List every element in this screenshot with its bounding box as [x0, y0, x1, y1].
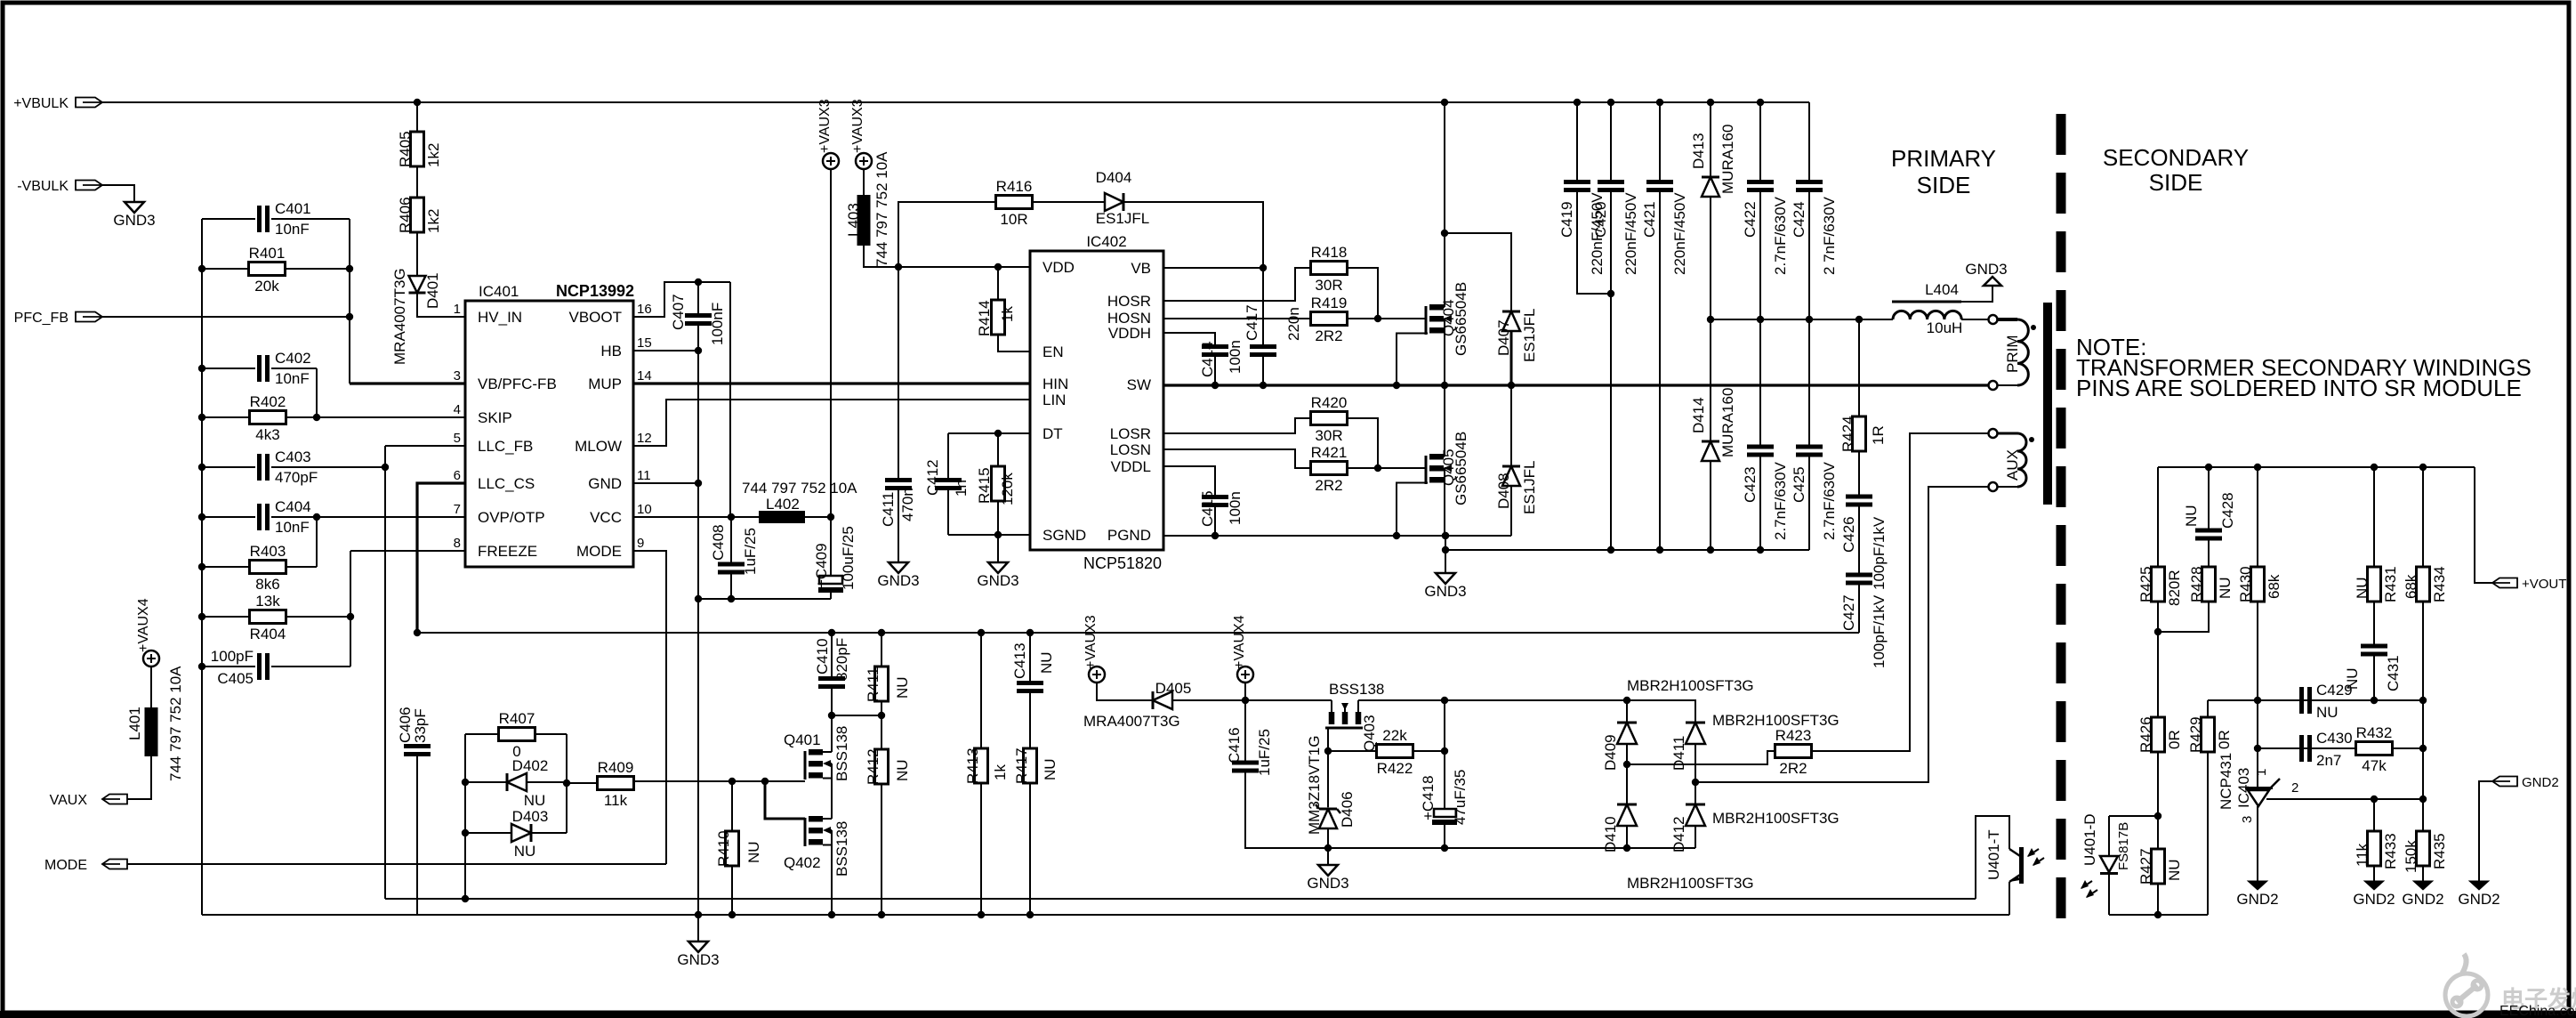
wire pin4 SKIP [317, 416, 465, 418]
svg-text:C422: C422 [1742, 201, 1759, 238]
optocoupler transistor U401-T [1976, 816, 2009, 899]
wire Q402 gate [765, 781, 805, 819]
svg-text:D411: D411 [1670, 736, 1687, 771]
svg-text:SKIP: SKIP [478, 409, 512, 426]
wire GND3 to C409 bottom [698, 598, 831, 600]
svg-text:D407: D407 [1495, 319, 1512, 356]
svg-text:GND3: GND3 [977, 572, 1018, 589]
svg-text:MRA4007T3G: MRA4007T3G [1083, 713, 1180, 730]
wire LLC_CS bus [417, 632, 1859, 634]
diode D403 NU [465, 832, 511, 834]
wire pin16 VBOOT [633, 282, 730, 317]
svg-text:C425: C425 [1791, 466, 1807, 503]
wire resonant node [1711, 319, 1893, 320]
svg-text:LLC_FB: LLC_FB [478, 438, 533, 455]
resistor R407 0 [465, 733, 499, 735]
svg-text:VDD: VDD [1042, 259, 1075, 276]
svg-text:MBR2H100SFT3G: MBR2H100SFT3G [1712, 810, 1839, 827]
svg-text:C423: C423 [1742, 466, 1759, 503]
svg-text:MUP: MUP [588, 376, 622, 392]
svg-text:L404: L404 [1925, 281, 1959, 298]
svg-text:C415: C415 [1199, 490, 1216, 527]
wire pin15 HB [633, 350, 698, 351]
svg-text:+VOUT: +VOUT [2522, 577, 2566, 592]
wire SGND [948, 534, 1030, 536]
svg-text:100pF: 100pF [211, 648, 254, 665]
diode D408 ES1JFL [1510, 385, 1512, 466]
svg-text:NCP13992: NCP13992 [556, 282, 634, 300]
wire L401 to +VAUX4 [150, 667, 152, 707]
svg-text:D410: D410 [1602, 816, 1619, 852]
svg-text:U401-T: U401-T [1985, 829, 2002, 880]
svg-text:+VAUX4: +VAUX4 [136, 598, 151, 652]
svg-text:11: 11 [637, 468, 651, 483]
wire IC403 cathode [2257, 700, 2258, 787]
wire pin12 MLOW to LIN [633, 400, 1030, 446]
capacitor C430 2n7 [2299, 735, 2304, 762]
svg-text:BSS138: BSS138 [833, 726, 850, 781]
wire pin8 FREEZE [350, 550, 465, 552]
ground GND3 under C411 [889, 562, 908, 573]
svg-text:470n: 470n [899, 488, 916, 521]
capacitor C428 NU [2208, 467, 2210, 529]
svg-text:MODE: MODE [576, 543, 622, 560]
svg-text:GS66504B: GS66504B [1453, 282, 1469, 356]
resistor R403 [202, 566, 250, 568]
svg-text:820R: 820R [2166, 570, 2183, 606]
diode D411 MBR2H100SFT3G [1627, 700, 1695, 723]
svg-text:R426: R426 [2137, 716, 2154, 753]
wire resonant return line [1445, 549, 1809, 551]
optocoupler diode U401-D FS817B [2108, 816, 2110, 856]
svg-text:1: 1 [2254, 769, 2269, 776]
svg-text:22k: 22k [1382, 727, 1407, 744]
svg-text:R429: R429 [2187, 716, 2204, 753]
svg-text:+VAUX3: +VAUX3 [850, 99, 865, 153]
wire D401 to pin1 HV_IN [417, 293, 465, 317]
inductor L403 [863, 169, 865, 195]
capacitor C415 [1163, 466, 1215, 496]
resistor R409 11k [598, 777, 634, 790]
svg-text:16: 16 [637, 302, 652, 317]
resistor R418 [1163, 268, 1312, 301]
capacitor C407 [697, 282, 699, 313]
op-amp IC401 NCP13992 box [465, 301, 633, 567]
wire R418 to gate node [1346, 268, 1378, 319]
wire FREEZE vertical to C405 [350, 551, 351, 667]
wire VAUX return line [1328, 847, 1695, 849]
svg-text:NU: NU [1038, 651, 1055, 674]
svg-text:C414: C414 [1199, 341, 1216, 377]
wire LLC_FB feedback vertical [384, 446, 386, 899]
svg-text:R403: R403 [250, 543, 286, 560]
svg-text:VCC: VCC [590, 509, 622, 526]
svg-text:2.7nF/630V: 2.7nF/630V [1772, 196, 1789, 275]
capacitor C422 2.7nF/630V [1759, 102, 1761, 181]
svg-text:10R: 10R [1000, 211, 1027, 228]
capacitor C412 [947, 433, 949, 478]
wire Q405 source to PGND [1444, 483, 1445, 537]
wire R428 bottom to R425 [2158, 602, 2209, 632]
connector -VBULK [76, 181, 102, 190]
svg-text:GND2: GND2 [2353, 891, 2395, 908]
capacitor C411 [898, 267, 899, 478]
svg-text:AUX: AUX [2004, 449, 2021, 481]
wire Q401 drain [831, 715, 833, 752]
svg-text:R432: R432 [2356, 724, 2393, 741]
wire R419 to Q404 gate [1346, 318, 1378, 319]
svg-text:15: 15 [637, 335, 652, 351]
svg-text:+VBULK: +VBULK [13, 96, 68, 111]
svg-text:IC401: IC401 [479, 283, 519, 300]
capacitor C404 [202, 516, 255, 518]
svg-text:BSS138: BSS138 [833, 821, 850, 877]
wire SW node [1163, 384, 1989, 386]
capacitor C419 220nF/450V [1576, 102, 1578, 181]
capacitor C401 [202, 218, 255, 220]
capacitor C414 [1163, 333, 1215, 344]
svg-text:GND3: GND3 [877, 572, 919, 589]
svg-text:820pF: 820pF [833, 638, 850, 681]
wire pin11 GND [633, 482, 698, 484]
svg-text:R430: R430 [2237, 566, 2254, 602]
inductor L401 [145, 707, 158, 756]
svg-text:C424: C424 [1791, 201, 1807, 238]
svg-text:SIDE: SIDE [1917, 172, 1971, 198]
svg-text:1uF/25: 1uF/25 [1256, 729, 1273, 776]
svg-text:D402: D402 [512, 757, 549, 774]
wire pin10 VCC [633, 516, 759, 518]
svg-text:0R: 0R [2216, 730, 2233, 749]
wire D-loop right vertical [566, 734, 568, 833]
wire L404 shield to GND3 [1961, 286, 1992, 302]
wire L402 to C409 [805, 516, 831, 518]
resistor R423 2R2 [1775, 745, 1812, 758]
svg-text:744 797 752 10A: 744 797 752 10A [873, 151, 890, 267]
capacitor C416 1uF/25 [1244, 700, 1246, 761]
capacitor C413 NU [1029, 633, 1031, 681]
svg-text:R433: R433 [2382, 833, 2399, 869]
wire D404 to VB [1124, 202, 1263, 268]
diode D410 MBR2H100SFT3G [1626, 764, 1628, 804]
wire VAUX rail right [1358, 699, 1627, 701]
svg-text:R434: R434 [2431, 566, 2448, 602]
svg-text:MBR2H100SFT3G: MBR2H100SFT3G [1627, 677, 1754, 694]
wire C410/R411 node [832, 715, 881, 716]
svg-text:IC402: IC402 [1086, 233, 1126, 250]
wire C427 to current sense bus [1858, 586, 1860, 634]
svg-text:NU: NU [1042, 758, 1059, 780]
wire rectifier lower node to AUX bottom [1695, 487, 1989, 782]
capacitor C429 NU [2299, 687, 2304, 714]
svg-text:10nF: 10nF [275, 370, 310, 387]
svg-text:C403: C403 [275, 448, 311, 465]
svg-text:C404: C404 [275, 498, 311, 515]
svg-text:R406: R406 [397, 197, 414, 233]
svg-text:C410: C410 [814, 638, 831, 675]
svg-text:VDDL: VDDL [1111, 458, 1151, 475]
svg-text:R420: R420 [1311, 394, 1348, 411]
svg-text:MURA160: MURA160 [1719, 125, 1736, 194]
svg-text:100n: 100n [1227, 340, 1244, 374]
wire VB [1163, 267, 1263, 269]
svg-text:R418: R418 [1311, 244, 1348, 261]
power +VAUX4 second [1237, 667, 1253, 683]
svg-text:8: 8 [454, 536, 461, 551]
wire R423 to AUX top [1810, 433, 1989, 751]
svg-text:GND3: GND3 [1307, 875, 1348, 892]
wire C407 down to GND pin and GND3 net [697, 326, 699, 599]
connector VAUX [102, 795, 127, 804]
svg-text:VDDH: VDDH [1108, 325, 1151, 342]
capacitor C420 220nF/450V [1610, 102, 1612, 181]
svg-text:R402: R402 [250, 393, 286, 410]
wire L404 to PRIM [1961, 319, 1989, 320]
svg-text:220nF/450V: 220nF/450V [1671, 192, 1688, 275]
svg-text:SIDE: SIDE [2149, 169, 2203, 196]
svg-text:MRA4007T3G: MRA4007T3G [391, 268, 408, 365]
svg-text:1R: 1R [1870, 425, 1887, 445]
resistor R410 NU [731, 781, 733, 831]
svg-text:R421: R421 [1311, 444, 1348, 461]
svg-text:FS817B: FS817B [2116, 822, 2131, 870]
capacitor C418 47uF/35 polarized [1444, 700, 1445, 751]
watermark logo [2445, 954, 2488, 1016]
svg-text:MM3Z18VT1G: MM3Z18VT1G [1306, 736, 1323, 835]
wire C411 to ground [898, 490, 899, 562]
wire right vertical C401/R401 to pin3 [349, 219, 350, 384]
svg-text:10uH: 10uH [1927, 319, 1963, 336]
ground GND3 under D406 [1327, 848, 1329, 865]
svg-text:R423: R423 [1775, 727, 1812, 744]
svg-text:+C409: +C409 [813, 543, 830, 588]
svg-text:10nF: 10nF [275, 221, 310, 238]
ground GND3 at -VBULK [125, 202, 144, 213]
capacitor C410 820pF [831, 633, 833, 676]
wire Q401 source to Q402 drain [831, 779, 833, 820]
svg-text:D401: D401 [424, 272, 441, 309]
svg-text:D413: D413 [1690, 133, 1707, 169]
ground GND3 at L404 shield [1984, 277, 2001, 286]
svg-text:R404: R404 [250, 626, 286, 642]
wire VBOOT rail down to VCC (right) [729, 282, 731, 517]
ground GND3 under SGND [997, 535, 999, 562]
wire primary ground bus [202, 914, 2009, 916]
svg-text:U401-D: U401-D [2081, 813, 2098, 866]
svg-text:C426: C426 [1840, 516, 1857, 553]
svg-text:C421: C421 [1641, 201, 1658, 238]
svg-text:NU: NU [2354, 577, 2371, 599]
wire rectifier mid node to R423 [1627, 751, 1776, 764]
resistor R424 1R [1858, 319, 1860, 416]
transistor Q405 GS66504B [1425, 456, 1428, 484]
svg-text:PFC_FB: PFC_FB [14, 311, 68, 326]
svg-text:47k: 47k [2362, 757, 2387, 774]
wire GND2 connector down [2479, 781, 2492, 881]
power +VAUX3 second [856, 153, 872, 169]
svg-text:14: 14 [637, 368, 652, 384]
power +VAUX3 third [1089, 667, 1105, 683]
svg-text:C411: C411 [880, 492, 897, 527]
svg-text:NU: NU [2166, 859, 2183, 881]
svg-text:L402: L402 [766, 496, 800, 513]
svg-text:150k: 150k [2403, 840, 2419, 873]
svg-text:220nF/450V: 220nF/450V [1622, 192, 1639, 275]
diode D402 NU [465, 781, 507, 783]
capacitor C409 polarized [830, 517, 832, 576]
svg-text:2 7nF/630V: 2 7nF/630V [1821, 196, 1838, 275]
svg-text:MLOW: MLOW [575, 438, 622, 455]
svg-text:30R: 30R [1315, 427, 1342, 444]
svg-text:GND2: GND2 [2236, 891, 2278, 908]
op-amp IC402 NCP51820 box [1030, 251, 1163, 550]
wire Q404 drain to +VBULK [1444, 102, 1445, 307]
svg-text:7: 7 [454, 502, 461, 517]
svg-text:30R: 30R [1315, 277, 1342, 294]
svg-text:R428: R428 [2188, 566, 2205, 602]
svg-text:+C418: +C418 [1420, 775, 1437, 820]
svg-text:R410: R410 [715, 830, 732, 867]
svg-text:FREEZE: FREEZE [478, 543, 537, 560]
diode D412 MBR2H100SFT3G [1695, 782, 1696, 804]
wire MODE to IC401 pin9 [127, 863, 666, 865]
wire Q404 kelvin source [1397, 334, 1428, 386]
resistor R426 0R [2157, 632, 2159, 717]
svg-text:C419: C419 [1558, 201, 1575, 238]
svg-text:5: 5 [454, 431, 461, 446]
svg-text:R427: R427 [2137, 848, 2154, 885]
wire left rail vertical [201, 219, 203, 915]
resistor R420 [1163, 418, 1312, 433]
svg-text:68k: 68k [2403, 574, 2419, 599]
wire secondary +VOUT rail [2158, 466, 2475, 468]
resistor R401 [202, 268, 249, 270]
wire pin3 VB/PFC-FB [350, 382, 465, 384]
wire L403 to IC402 VDD [864, 246, 1030, 267]
svg-text:C412: C412 [924, 459, 941, 496]
svg-text:11k: 11k [604, 792, 628, 809]
svg-text:R409: R409 [598, 759, 634, 776]
ground GND3 main [697, 915, 699, 941]
svg-text:2.7nF/630V: 2.7nF/630V [1821, 461, 1838, 540]
wire Q405 kelvin source [1397, 483, 1428, 537]
svg-text:C420: C420 [1592, 201, 1609, 238]
svg-text:R416: R416 [996, 178, 1033, 195]
diode D405 MRA4007T3G [1097, 683, 1153, 700]
wire D405 to +VAUX4 node [1172, 699, 1332, 701]
wire R434 down [2422, 602, 2424, 799]
svg-text:L401: L401 [126, 707, 143, 740]
svg-text:NU: NU [894, 759, 911, 781]
svg-text:PINS ARE SOLDERED INTO SR MOD: PINS ARE SOLDERED INTO SR MODULE [2076, 375, 2522, 401]
wire +VBULK rail [102, 101, 1809, 103]
ground GND2 under R433 [2364, 881, 2384, 890]
capacitor C403 [202, 466, 255, 468]
wire U401-D anode [2109, 815, 2158, 817]
svg-text:R431: R431 [2382, 566, 2399, 602]
svg-text:6: 6 [454, 468, 461, 483]
svg-text:VAUX: VAUX [50, 793, 88, 808]
svg-text:33pF: 33pF [412, 708, 429, 743]
resistor R405 [416, 102, 418, 132]
wire Q401 gate [633, 780, 805, 782]
wire IC403 anode to ground [2257, 806, 2258, 881]
svg-text:EN: EN [1042, 343, 1064, 360]
isolation barrier dashed line [2057, 114, 2066, 918]
svg-text:R425: R425 [2137, 566, 2154, 602]
svg-text:NU: NU [2217, 577, 2234, 599]
resistor R404 [202, 616, 250, 618]
svg-text:D404: D404 [1096, 169, 1132, 186]
svg-text:D405: D405 [1155, 680, 1192, 697]
svg-text:10nF: 10nF [275, 519, 310, 536]
svg-text:NU: NU [2344, 667, 2361, 690]
svg-text:LLC_CS: LLC_CS [478, 475, 535, 492]
svg-text:SW: SW [1127, 376, 1151, 393]
svg-text:D412: D412 [1670, 816, 1687, 852]
transformer AUX winding [1989, 429, 1998, 438]
optocoupler light arrows out of U401-D [2081, 881, 2092, 888]
svg-text:2: 2 [2291, 780, 2298, 796]
svg-text:2R2: 2R2 [1315, 327, 1342, 344]
svg-text:NCP51820: NCP51820 [1083, 554, 1162, 572]
svg-text:SECONDARY: SECONDARY [2103, 144, 2249, 171]
wire C404 to R403 [316, 517, 318, 567]
resistor R417 NU [1029, 693, 1031, 748]
svg-text:LOSR: LOSR [1110, 425, 1151, 442]
svg-text:ES1JFL: ES1JFL [1521, 461, 1538, 514]
svg-text:HOSR: HOSR [1107, 293, 1151, 310]
capacitor C405 [202, 666, 255, 667]
svg-text:100pF/1kV: 100pF/1kV [1871, 594, 1888, 668]
svg-text:R413: R413 [964, 747, 981, 784]
svg-text:1k: 1k [999, 306, 1016, 322]
svg-text:744 797 752 10A: 744 797 752 10A [167, 666, 184, 781]
svg-text:PRIMARY: PRIMARY [1891, 145, 1996, 172]
svg-text:1uF/25: 1uF/25 [742, 528, 759, 575]
svg-text:2R2: 2R2 [1779, 760, 1807, 777]
svg-text:HB: HB [600, 343, 622, 360]
svg-text:R419: R419 [1311, 295, 1348, 311]
svg-text:GND3: GND3 [677, 951, 719, 968]
svg-text:PGND: PGND [1107, 527, 1151, 544]
svg-text:LOSN: LOSN [1110, 441, 1151, 458]
svg-text:GND3: GND3 [1965, 261, 2007, 278]
svg-text:R435: R435 [2431, 833, 2448, 869]
svg-text:C430: C430 [2316, 730, 2353, 747]
svg-text:NU: NU [514, 843, 536, 860]
wire D-loop left vertical [464, 734, 466, 899]
svg-text:ES1JFL: ES1JFL [1096, 210, 1149, 227]
svg-text:1n: 1n [953, 480, 970, 497]
wire DT node [948, 432, 1030, 434]
ground GND3 on PGND line [1445, 536, 1446, 573]
svg-text:NU: NU [524, 792, 546, 809]
power +VAUX4 [143, 650, 159, 667]
resistor R428 NU [2208, 541, 2210, 568]
resistor R415 [997, 433, 999, 466]
svg-text:C407: C407 [670, 294, 687, 330]
wire IC403 ref row [2258, 747, 2423, 749]
svg-text:VBOOT: VBOOT [568, 309, 622, 326]
diode D404 ES1JFL [1031, 201, 1105, 203]
svg-text:0R: 0R [2166, 730, 2183, 749]
svg-text:C402: C402 [275, 350, 311, 367]
svg-text:VB/PFC-FB: VB/PFC-FB [478, 376, 557, 392]
svg-text:C431: C431 [2385, 655, 2402, 691]
resistor R425 820R [2157, 467, 2159, 567]
capacitor C431 NU [2373, 602, 2375, 644]
